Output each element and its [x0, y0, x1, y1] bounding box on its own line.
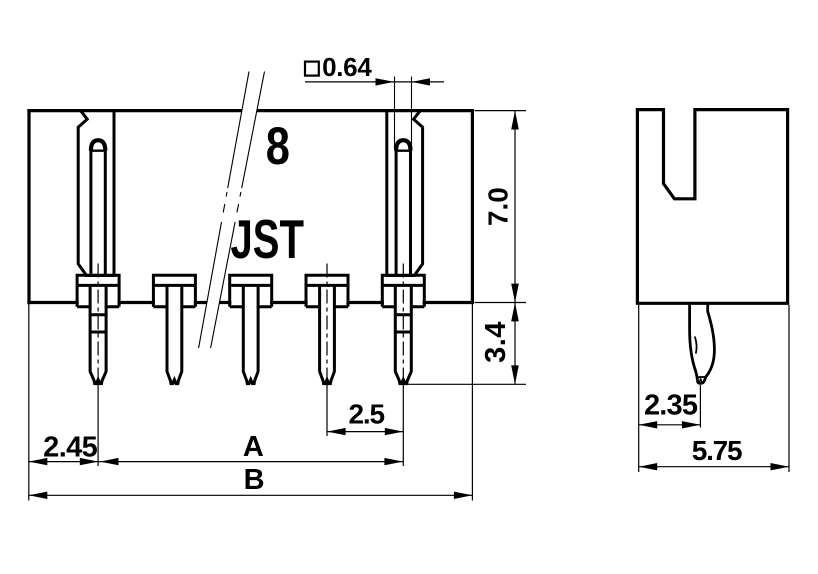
- dim 0.64 arrows: [376, 78, 395, 85]
- dim 2.45 line: [29, 461, 99, 463]
- centerline pin 5: [402, 264, 404, 384]
- pin boss 4: [306, 275, 348, 307]
- contact pin top in left slot: [90, 140, 107, 275]
- centerline side pin: [699, 385, 701, 428]
- pin 2: [167, 285, 182, 383]
- dim B line: [29, 494, 473, 496]
- pin 5: [395, 285, 411, 383]
- extension line housing left: [28, 304, 30, 501]
- svg-text:3.4: 3.4: [480, 321, 512, 363]
- dim 3.4 extension bottom: [399, 383, 526, 385]
- extension line side housing left: [638, 305, 640, 472]
- dim 2.5 line: [327, 431, 403, 433]
- break lines diagonal pair: [199, 72, 265, 349]
- pin side view: [690, 303, 715, 383]
- svg-text:JST: JST: [231, 210, 304, 270]
- pin 3: [243, 285, 258, 383]
- contact pin top in right slot: [395, 140, 412, 275]
- dim 7.0 extension top: [475, 110, 527, 112]
- svg-text:2.5: 2.5: [349, 399, 385, 430]
- svg-text:A: A: [243, 431, 264, 463]
- housing front view outline: [29, 111, 472, 303]
- pin boss 1: [77, 275, 119, 307]
- pin boss 2: [153, 275, 195, 307]
- dim 2.35 line: [639, 424, 701, 426]
- centerline pin 4: [326, 264, 328, 384]
- svg-text:2.45: 2.45: [43, 431, 98, 463]
- housing bottom edge segments: [29, 301, 472, 304]
- break mask white band: [199, 72, 265, 349]
- svg-text:2.35: 2.35: [644, 390, 698, 422]
- extension line housing right: [471, 304, 473, 501]
- dim 0.64 square symbol: [305, 62, 319, 76]
- dim 0.64 leader line: [305, 81, 444, 83]
- dim 3.4 line: [514, 303, 516, 385]
- housing side view outline: [637, 110, 787, 304]
- svg-text:7.0: 7.0: [483, 187, 514, 226]
- pin 1: [90, 285, 106, 383]
- svg-text:B: B: [244, 464, 265, 496]
- svg-text:0.64: 0.64: [322, 52, 372, 82]
- latch slot right: [387, 111, 423, 276]
- svg-text:8: 8: [266, 117, 290, 176]
- pin boss 3: [230, 275, 272, 307]
- svg-text:5.75: 5.75: [692, 435, 742, 466]
- pin 4: [320, 285, 335, 383]
- dim A line: [98, 461, 403, 463]
- dim 7.0 line: [514, 111, 516, 303]
- centerline pin 1: [97, 264, 99, 384]
- extension line side housing right: [788, 305, 790, 472]
- latch slot left: [78, 111, 114, 276]
- dim 5.75 line: [639, 466, 789, 468]
- dim 0.64 extension lines: [395, 77, 412, 150]
- pin boss 5: [382, 275, 424, 307]
- dim 7.0/3.4 extension mid: [475, 302, 527, 304]
